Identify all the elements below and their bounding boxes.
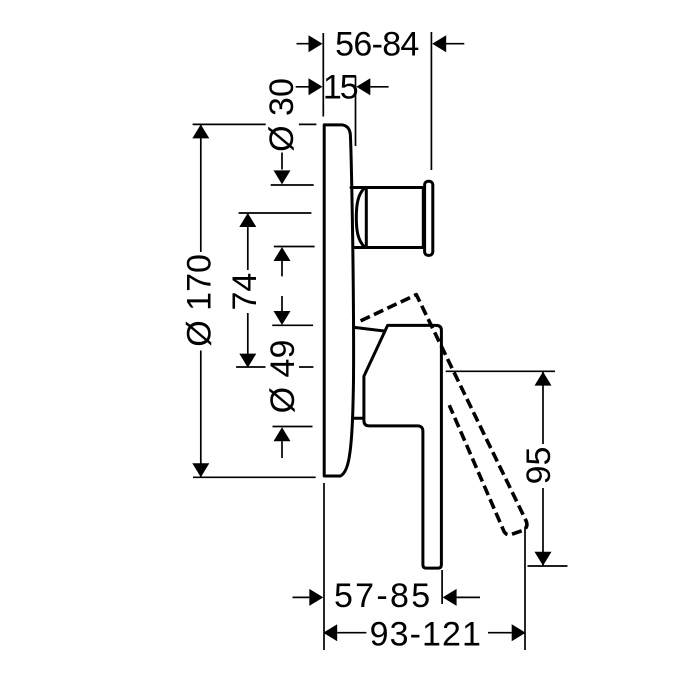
arrow 15 right: [356, 78, 370, 95]
arrow Ø49 bottom: [274, 427, 291, 441]
handle flange line: [354, 327, 383, 331]
arrow 93-121 right: [512, 624, 526, 641]
dim Ø170 line: [200, 124, 202, 477]
dim 74 line: [247, 213, 249, 368]
extension line: spout end (56-84 right): [430, 32, 432, 170]
extension line: wall plane top: [322, 33, 324, 117]
dim 56-84 tails: [297, 43, 465, 45]
svg-text:Ø 170: Ø 170: [180, 254, 218, 347]
svg-text:Ø 30: Ø 30: [263, 78, 301, 152]
dim 15 tails: [296, 86, 389, 88]
svg-text:15: 15: [323, 68, 358, 106]
dim Ø49 tails: [281, 296, 283, 458]
svg-text:74: 74: [226, 273, 264, 311]
ext: plate top: [193, 123, 317, 125]
arrow 56-84 right: [432, 35, 446, 52]
arrow 74 top: [239, 213, 256, 227]
svg-text:Ø 49: Ø 49: [264, 340, 302, 414]
ext: lever pivot level (95 top): [446, 370, 555, 372]
escutcheon plate (side profile): [324, 125, 353, 476]
arrow 57-85 right: [443, 589, 457, 606]
arrow 93-121 left: [323, 624, 337, 641]
arrow Ø170 bottom: [192, 463, 209, 477]
dim 93-121 line: [337, 632, 512, 634]
arrow 95 bottom: [535, 552, 552, 566]
ext: handle axis: [236, 366, 313, 368]
spout connector cylinder: [351, 188, 423, 248]
dim 57-85 tails: [293, 596, 481, 598]
ext: lever end level (95 bottom): [528, 565, 568, 567]
svg-text:57-85: 57-85: [334, 577, 432, 615]
svg-text:93-121: 93-121: [370, 615, 482, 653]
extension line: plate front (15 right): [355, 76, 357, 146]
spout connector neck arc: [356, 188, 365, 248]
ext: spout bottom: [274, 246, 315, 248]
arrow 15 left: [309, 78, 323, 95]
arrow Ø49 top: [274, 311, 291, 325]
spout end cap: [425, 181, 433, 255]
ext: lever bottom (57-85 right): [441, 570, 443, 604]
arrow 56-84 left: [309, 35, 323, 52]
ext: spout top: [271, 184, 314, 186]
ext: wall plane bottom: [323, 483, 325, 650]
arrow Ø30 bottom: [274, 247, 291, 261]
dim Ø30 tails: [281, 153, 283, 277]
arrow 57-85 left: [309, 589, 323, 606]
ext: open lever end (93-121 right): [524, 527, 526, 650]
handle body and lever (closed position): [364, 325, 442, 568]
ext: plate bottom: [193, 476, 316, 478]
arrow Ø170 top: [192, 124, 209, 138]
ext: spout axis: [239, 212, 312, 214]
handle/plate junction tick: [353, 417, 364, 420]
svg-text:95: 95: [520, 447, 558, 485]
arrow 74 bottom: [239, 354, 256, 368]
ext: handle top: [272, 324, 313, 326]
arrow 95 top: [535, 372, 552, 386]
dashed lever open position outline: [361, 295, 527, 535]
arrow Ø30 top: [274, 170, 291, 184]
ext: handle bottom: [273, 426, 313, 428]
svg-text:56-84: 56-84: [335, 26, 418, 64]
dim 95 line: [542, 371, 544, 566]
